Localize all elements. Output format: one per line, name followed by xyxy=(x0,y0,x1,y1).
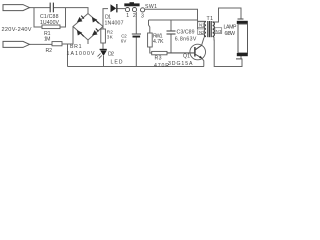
svg-text:LAMP: LAMP xyxy=(224,24,238,30)
svg-text:1M: 1M xyxy=(44,37,51,43)
svg-text:3K: 3K xyxy=(107,34,114,39)
svg-text:N3: N3 xyxy=(216,29,223,34)
svg-text:D2: D2 xyxy=(108,51,114,57)
svg-text:1U400V: 1U400V xyxy=(40,20,60,26)
svg-text:6/8W: 6/8W xyxy=(225,31,236,37)
svg-text:2: 2 xyxy=(133,13,136,19)
svg-text:BR1: BR1 xyxy=(70,44,82,50)
svg-text:3: 3 xyxy=(141,14,144,20)
svg-text:SW1: SW1 xyxy=(145,4,157,10)
svg-text:6V: 6V xyxy=(121,38,127,43)
svg-text:470R: 470R xyxy=(154,63,169,69)
svg-text:LED: LED xyxy=(111,60,123,66)
svg-text:1A1000V: 1A1000V xyxy=(67,51,96,57)
svg-text:1N4007: 1N4007 xyxy=(105,21,124,27)
svg-text:N2: N2 xyxy=(199,30,205,35)
svg-text:R3: R3 xyxy=(155,56,162,62)
svg-text:6.8n63V: 6.8n63V xyxy=(175,36,197,42)
svg-text:N1: N1 xyxy=(199,23,205,28)
svg-text:1: 1 xyxy=(126,13,129,19)
svg-text:220V-240V: 220V-240V xyxy=(2,27,32,33)
svg-text:Q1: Q1 xyxy=(183,53,190,59)
svg-text:T1: T1 xyxy=(207,16,214,22)
svg-text:C3/C89: C3/C89 xyxy=(177,30,195,36)
svg-text:R2: R2 xyxy=(46,48,53,54)
svg-text:4.7K: 4.7K xyxy=(153,39,164,45)
svg-text:3DG15A: 3DG15A xyxy=(168,61,193,67)
